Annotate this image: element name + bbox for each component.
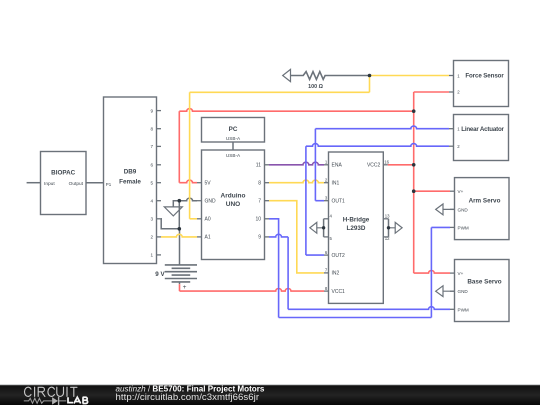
svg-text:Base Servo: Base Servo [467,279,501,286]
svg-text:Input: Input [44,181,55,187]
svg-text:A0: A0 [205,217,211,223]
Force Sensor block [449,61,509,107]
wire red Base Servo V+ [414,271,450,274]
svg-text:13: 13 [385,214,390,219]
svg-text:http://circuitlab.com/c3xmtfj6: http://circuitlab.com/c3xmtfj66s6jr [116,392,260,403]
CircuitLab footer bar [0,384,540,405]
H-Bridge pin 7 IN2 [324,268,340,277]
connector P1 DB9 Female [104,97,157,264]
svg-text:7: 7 [150,144,153,149]
H-Bridge L293D block U2 [329,152,384,303]
BIOPAC block [41,152,87,215]
wire red main vertical [413,92,415,273]
H-Bridge right ground port arrow [387,222,402,233]
wire yellow Arduino 7 to IN2 [269,201,324,273]
Arduino pin A0 [197,217,211,223]
svg-text:UNO: UNO [226,201,240,208]
H-Bridge pin 2 IN1 [324,178,340,187]
svg-text:Arm Servo: Arm Servo [469,198,501,205]
svg-text:4: 4 [150,199,153,204]
wire blue Arduino 10 to Arm Servo PWM [269,219,279,318]
svg-text:PC: PC [229,126,238,133]
wire purple Arduino 11 to ENA [269,162,324,165]
svg-text:L293D: L293D [347,225,366,232]
DB9 pin 2 [150,235,161,240]
DB9 pin 7 [150,144,161,149]
ground symbol [164,201,182,216]
svg-text:Output: Output [69,181,84,187]
svg-text:ENA: ENA [332,163,343,169]
wire red to Arduino 5V [179,180,197,183]
wire yellow Arduino 8 to IN1 [269,180,324,183]
svg-text:Linear Actuator: Linear Actuator [461,126,504,133]
svg-text:A1: A1 [205,235,211,241]
svg-text:V+: V+ [458,189,464,194]
wire yellow to Force Sensor pin1 [370,75,450,77]
wire red Arm Servo V+ [414,190,450,192]
svg-text:Female: Female [119,178,141,185]
svg-text:11: 11 [256,163,261,169]
Arduino pin 9 [258,235,269,241]
node red net junction A [412,109,416,113]
footer title text [116,384,265,402]
svg-text:8: 8 [150,127,153,132]
DB9 pin 5 [150,181,161,186]
svg-text:7: 7 [258,199,261,205]
svg-text:VCC1: VCC1 [332,289,346,295]
wire red 5V net vertical [178,111,180,183]
svg-text:5: 5 [150,181,153,186]
svg-text:VCC2: VCC2 [367,163,381,169]
H-Bridge pin 3 OUT1 [324,196,345,205]
svg-text:PWM: PWM [458,307,469,312]
svg-text:6: 6 [150,163,153,168]
svg-text:GND: GND [458,289,469,294]
resistor R1 100 ohm [291,72,370,90]
Base Servo block [450,260,509,322]
H-Bridge pin 6 OUT2 [324,250,345,259]
battery top lead wire [179,229,181,265]
svg-text:100 Ω: 100 Ω [308,84,323,90]
H-Bridge pin 1 ENA [324,160,342,169]
svg-text:Arduino: Arduino [221,192,246,199]
svg-text:V+: V+ [458,271,464,276]
wire red battery to VCC1 [179,284,181,291]
node battery top junction [178,227,182,231]
H-Bridge left ground port arrow [310,222,325,233]
svg-text:1: 1 [150,253,153,258]
H-Bridge pin 8 VCC1 [324,286,345,295]
wire BIOPAC output to DB9 P1 [86,182,104,184]
svg-text:IN1: IN1 [332,181,340,187]
DB9 pin 1 [150,253,161,258]
svg-text:P1: P1 [106,182,112,187]
wire yellow DB9 pin2 to A1 [161,234,197,237]
svg-text:10: 10 [255,217,261,223]
wire blue Arduino 9 to Base Servo PWM [269,234,288,237]
wire red Force Sensor pin2 [414,91,449,93]
DB9 pin 8 [150,127,161,132]
DB9 pin 3 [150,217,161,222]
PC block [202,118,265,143]
svg-text:PWM: PWM [458,225,469,230]
svg-text:OUT2: OUT2 [332,253,346,259]
svg-text:USB-A: USB-A [226,136,241,141]
node resistor-yellow junction [368,74,372,78]
DB9 pin P1 stub [100,182,104,184]
svg-text:16: 16 [384,159,389,164]
node ground net junction [178,199,182,203]
H-Bridge ground pins 13,12 bracket [383,214,390,242]
wire Arduino GND to ground net [179,198,197,201]
wire red top horizontal [179,109,413,112]
wire blue OUT2 to Linear Actuator pin2 [306,144,449,147]
Arduino pin 11 [256,163,269,169]
svg-text:H-Bridge: H-Bridge [343,216,370,223]
wire blue OUT1 to Linear Actuator pin1 [315,126,449,129]
Arm Servo block [450,178,509,240]
Arduino pin GND [197,199,216,205]
battery V1 9V [155,265,197,291]
H-Bridge pin 16 VCC2 [367,159,390,168]
resistor left port arrow [283,69,291,81]
svg-text:GND: GND [205,199,217,205]
svg-text:3: 3 [150,217,153,222]
DB9 pin 4 [150,199,161,204]
svg-text:5V: 5V [205,181,212,187]
svg-text:OUT1: OUT1 [332,199,346,205]
svg-text:9: 9 [258,235,261,241]
node red net junction B [412,163,416,167]
svg-text:BIOPAC: BIOPAC [51,170,75,177]
svg-text:8: 8 [258,181,261,187]
svg-text:9 V: 9 V [155,271,165,278]
wire yellow top horizontal [190,91,370,93]
wire BIOPAC input [27,182,41,184]
DB9 pin 6 [150,163,161,168]
svg-text:GND: GND [458,207,469,212]
CircuitLab logo [24,387,88,405]
Arduino pin 5V [197,181,211,187]
wire PC USB to Arduino USB [232,142,234,150]
svg-text:2: 2 [150,235,153,240]
Arm Servo ground port arrow [436,204,455,215]
wire red VCC2 [388,164,414,166]
wire ground net vertical [178,201,180,229]
Arduino UNO block U1 [202,150,265,260]
H-Bridge ground pins 4,5 bracket [324,214,333,242]
wire yellow A0 vertical [189,92,191,219]
DB9 pin 9 [150,108,161,113]
Arduino pin 8 [258,181,269,187]
battery bottom lead [179,282,181,284]
svg-text:+: + [183,284,187,291]
Linear Actuator block [449,115,509,161]
svg-text:DB9: DB9 [124,169,137,176]
svg-text:IN2: IN2 [332,271,340,277]
Arduino pin A1 [197,235,211,241]
svg-text:Force Sensor: Force Sensor [465,72,504,79]
Arduino pin 7 [258,199,269,205]
wire DB9 pin3 to ground net [161,219,179,229]
Base Servo ground port arrow [436,286,455,297]
svg-text:USB-A: USB-A [226,153,241,158]
Arduino pin 10 [255,217,269,223]
svg-text:9: 9 [150,108,153,113]
node red net junction C [412,189,416,193]
